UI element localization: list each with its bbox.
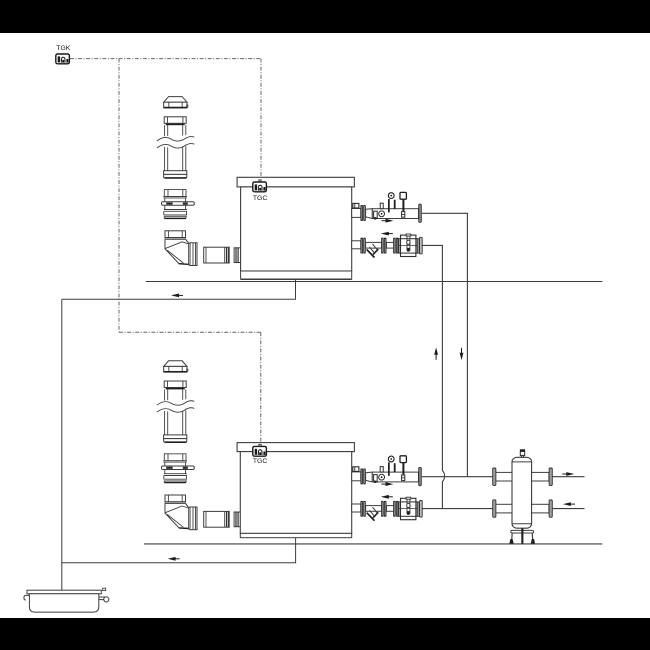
upper boiler return pipework — [352, 232, 423, 258]
upper boiler TGC sensor stem — [259, 180, 261, 182]
condensate tray body — [29, 594, 98, 612]
upper boiler plinth — [241, 271, 352, 279]
separator lower seam — [512, 523, 532, 525]
lower boiler TGC sensor stem — [259, 444, 261, 446]
lower boiler plinth — [240, 533, 351, 537]
system supply arrow — [562, 472, 574, 476]
upper flue elbow — [165, 231, 198, 266]
lower flue elbow — [165, 495, 198, 530]
flow arrow up on return riser — [434, 347, 438, 359]
upper floor line — [146, 281, 603, 283]
dashed control line drop to upper boiler TGC — [260, 59, 262, 180]
system return arrow — [563, 502, 575, 506]
svg-text:TGK: TGK — [56, 45, 70, 52]
flow arrow down on supply riser — [460, 348, 464, 360]
hydraulic separator vessel — [512, 457, 532, 528]
separator air vent — [520, 449, 525, 457]
upper flue terminal cap — [164, 97, 188, 108]
upper boiler TGC sensor — [253, 182, 267, 192]
separator bottom-right flange — [549, 500, 552, 518]
upper flue inspection tee with bracket — [162, 189, 195, 218]
supply header to separator — [422, 476, 495, 478]
flue gas thermostat TGK — [56, 54, 70, 64]
upper flue straight pipe with break — [157, 117, 194, 178]
lower boiler TGC sensor — [253, 446, 267, 456]
return riser vertical with crossover hop — [442, 245, 444, 509]
lower boiler supply pipework — [352, 456, 422, 486]
supply riser vertical — [466, 213, 468, 477]
separator bottom-left flange — [493, 500, 496, 518]
upper boiler body — [241, 187, 352, 271]
lower boiler lid — [237, 443, 354, 452]
lower condensate arrow — [168, 557, 180, 561]
separator top-right port pipe — [532, 472, 549, 481]
dashed control line drop to lower boiler TGC — [260, 332, 262, 444]
lower condensate drop — [62, 538, 296, 563]
return header to separator — [422, 508, 495, 510]
separator upper seam — [512, 461, 532, 463]
svg-text:TGC: TGC — [253, 195, 267, 202]
lower flue straight pipe with break — [157, 381, 194, 442]
lower boiler return pipework — [352, 495, 423, 521]
condensate tray right handle — [99, 597, 109, 602]
separator top-left flange — [493, 468, 496, 486]
lower flue terminal cap — [164, 361, 188, 372]
upper boiler lid — [237, 177, 354, 187]
upper condensate drop — [62, 280, 296, 300]
bottom letterbox black bar — [0, 618, 650, 650]
upper flue horizontal piece — [204, 247, 230, 263]
dashed control line TGK horizontal — [70, 58, 261, 60]
condensate tray knob — [103, 588, 106, 590]
lower boiler body — [240, 452, 351, 534]
condensate main down pipe — [61, 299, 63, 590]
upper boiler supply pipework — [352, 192, 422, 222]
separator bottom-left port pipe — [495, 504, 513, 513]
separator stand — [509, 528, 535, 543]
svg-text:TGC: TGC — [253, 458, 267, 465]
upper condensate arrow — [171, 294, 183, 298]
system supply line — [553, 476, 585, 478]
dashed control line lower horizontal — [119, 331, 261, 333]
dashed control line left branch vertical — [118, 59, 120, 333]
return pipe to riser — [422, 244, 443, 246]
separator top-right flange — [549, 468, 552, 486]
separator top-left port pipe — [495, 472, 513, 481]
lower floor line — [144, 543, 602, 545]
condensate tray lip — [27, 590, 101, 594]
upper flue boiler connector — [234, 248, 241, 263]
top letterbox black bar — [0, 0, 650, 33]
system return line — [553, 508, 585, 510]
lower flue inspection tee with bracket — [162, 453, 195, 482]
lower flue horizontal piece — [204, 511, 230, 527]
lower flue boiler connector — [234, 512, 241, 527]
separator bottom-right port pipe — [532, 504, 549, 513]
condensate tray left handle — [24, 595, 30, 600]
supply pipe to riser — [422, 212, 468, 214]
